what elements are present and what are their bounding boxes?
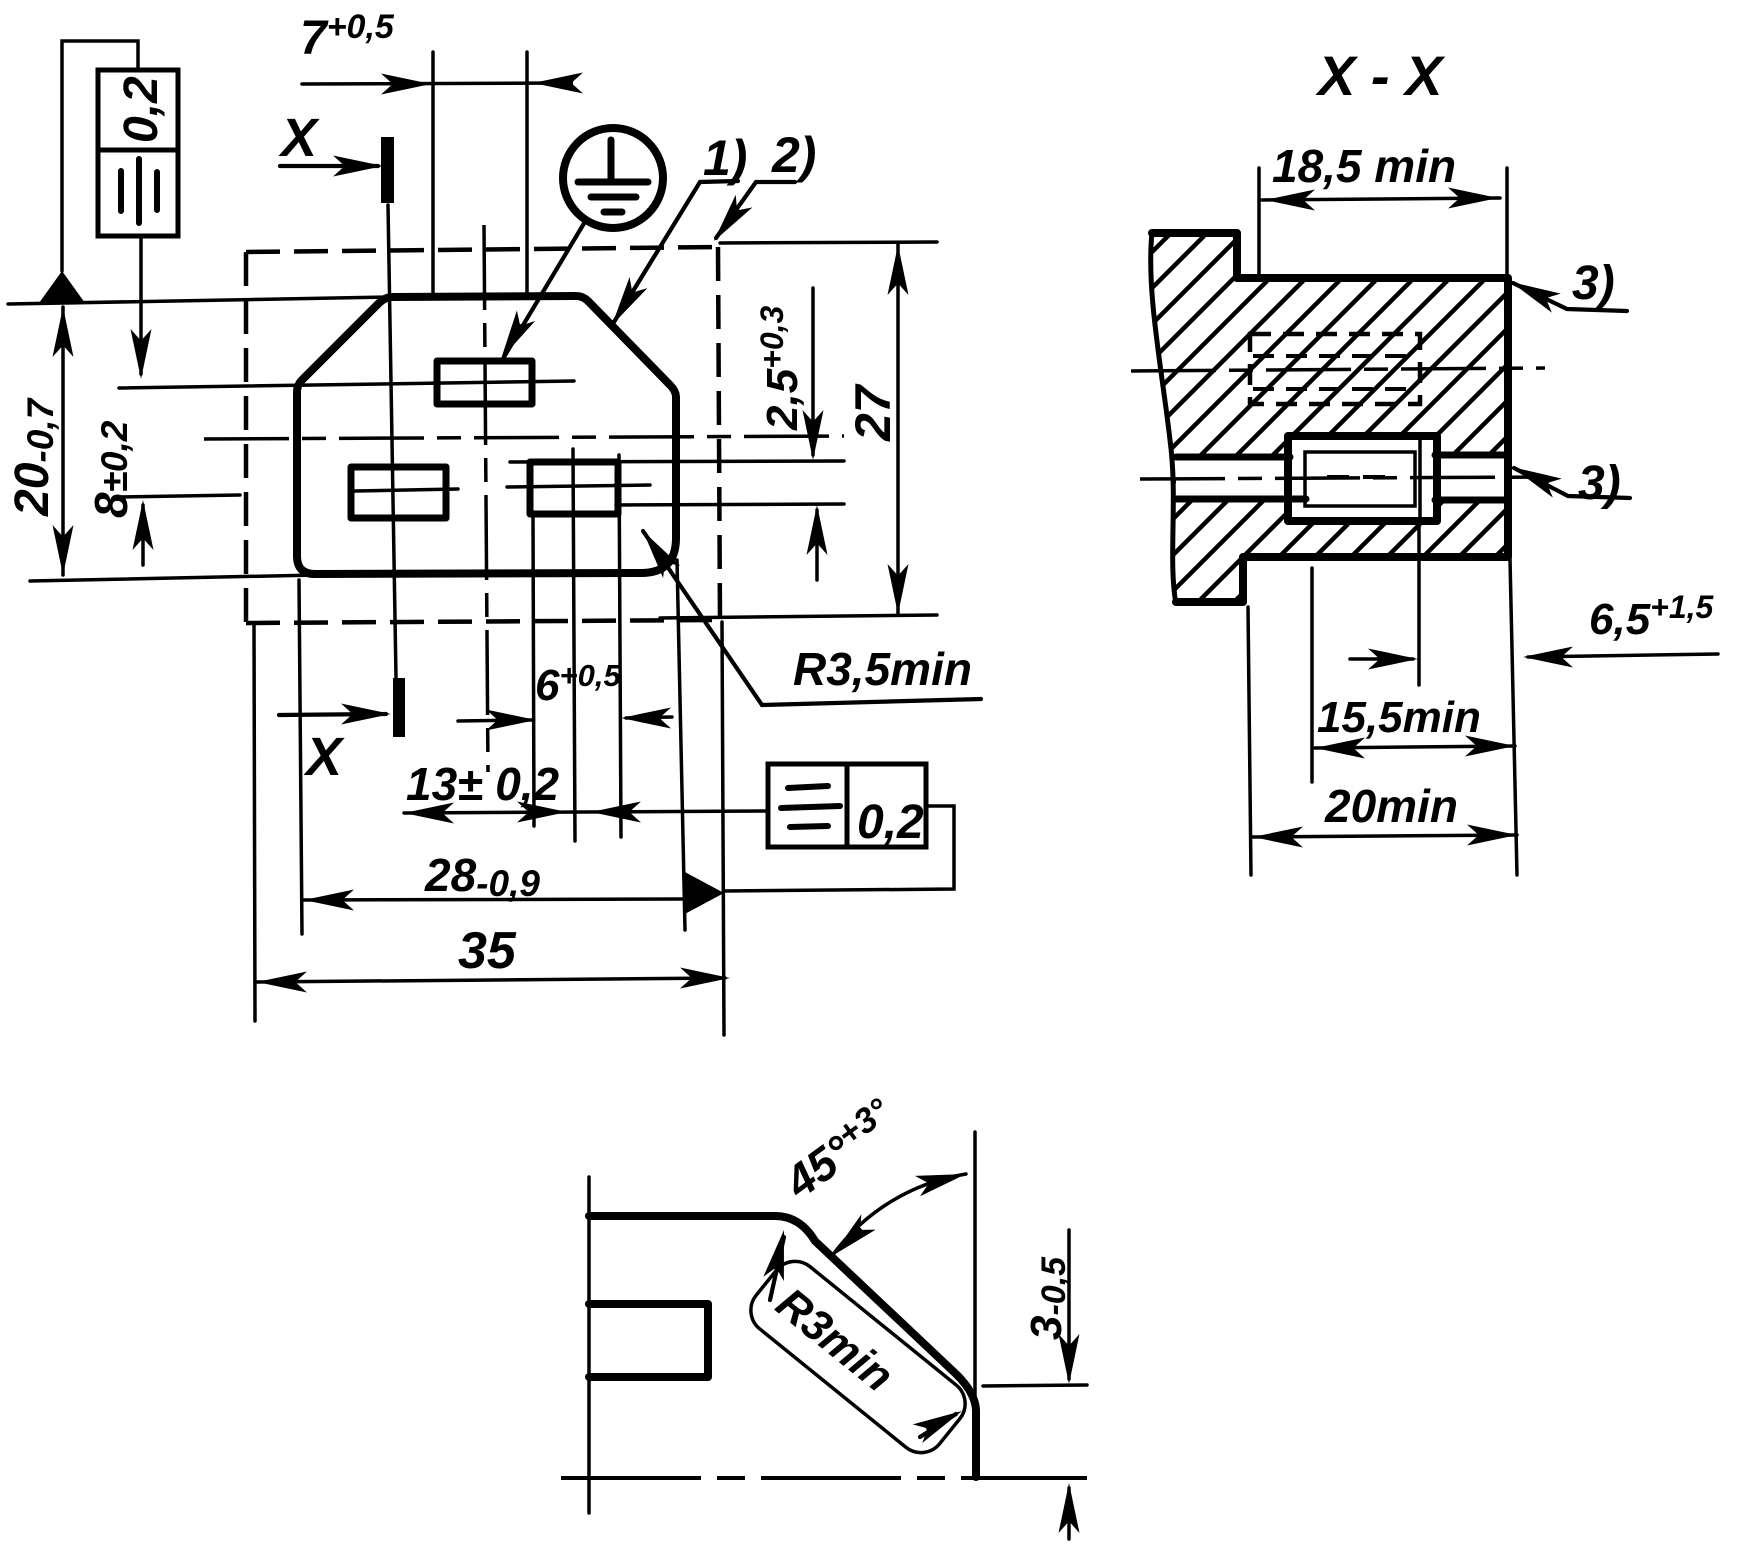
section mark X bottom [279,678,405,787]
svg-text:13± 0,2: 13± 0,2 [406,758,560,810]
dimension 3-0.5 [983,1230,1087,1539]
angle dimension 45+3 [773,1090,969,1263]
svg-text:2): 2) [771,127,816,183]
svg-text:X - X: X - X [1315,44,1446,107]
dimension 7+0.5 [300,8,583,95]
slot channel edges [1176,455,1508,500]
dimension 6.5+1.5 [1350,589,1718,670]
dimension 35 [257,922,730,993]
dimension 18.5min [1262,140,1500,211]
dimension 20min [1253,780,1517,848]
dimension 28-0.9 with datum triangle [304,849,724,915]
svg-text:18,5 min: 18,5 min [1272,140,1456,192]
svg-text:35: 35 [458,922,517,980]
svg-text:0,2: 0,2 [857,796,924,849]
tolerance frame 1 (symmetry 0,2) [98,70,178,236]
section extension lines [1248,168,1517,875]
svg-text:R3,5min: R3,5min [793,643,972,695]
svg-text:20min: 20min [1324,780,1458,832]
tolerance frame 2 (symmetry 0,2) [724,764,954,891]
section outline [1151,233,1508,604]
left slot [351,467,446,518]
dimension 13+-0.2 [404,758,769,824]
connector outline [297,296,676,574]
contact pin box [1288,436,1437,521]
leader R3.5min [634,525,981,705]
dimension 8+-0.2 [85,236,154,565]
earth slot [437,361,532,404]
detail slot [589,1304,708,1377]
callout 3) upper [1507,257,1627,313]
section title X-X [1315,44,1446,107]
svg-text:15,5min: 15,5min [1317,693,1481,742]
svg-text:0,2: 0,2 [115,76,168,143]
svg-text:1): 1) [703,130,747,186]
dimension 15.5min [1315,693,1515,759]
dimension 2.5+0.3 [754,288,828,580]
wire extension-lines [8,52,937,1035]
right slot [530,462,618,514]
hatched section body [1151,233,1508,602]
detail center line [561,1476,1087,1480]
datum triangle A [39,41,138,303]
callout 3) lower [1508,457,1630,510]
svg-text:3): 3) [1578,457,1621,510]
node main-center-lines [204,225,844,772]
hidden earth slot dashed [1250,334,1420,404]
dimension 6+0.5 [458,658,672,731]
ground symbol [492,128,663,364]
svg-text:X: X [278,108,320,168]
callout 1) [603,130,747,331]
svg-text:27: 27 [845,383,901,442]
svg-text:3): 3) [1572,257,1615,310]
section center lines [1131,368,1548,479]
detail edge lines [589,1132,976,1513]
dimension 20-0.7 [6,307,74,575]
svg-text:X: X [303,727,345,787]
node flange-dashed-outline [246,247,720,623]
section mark X top [278,108,394,203]
dimension 27 [845,244,909,615]
callout 2) [706,127,817,247]
leader R3min boxed [741,1228,975,1463]
